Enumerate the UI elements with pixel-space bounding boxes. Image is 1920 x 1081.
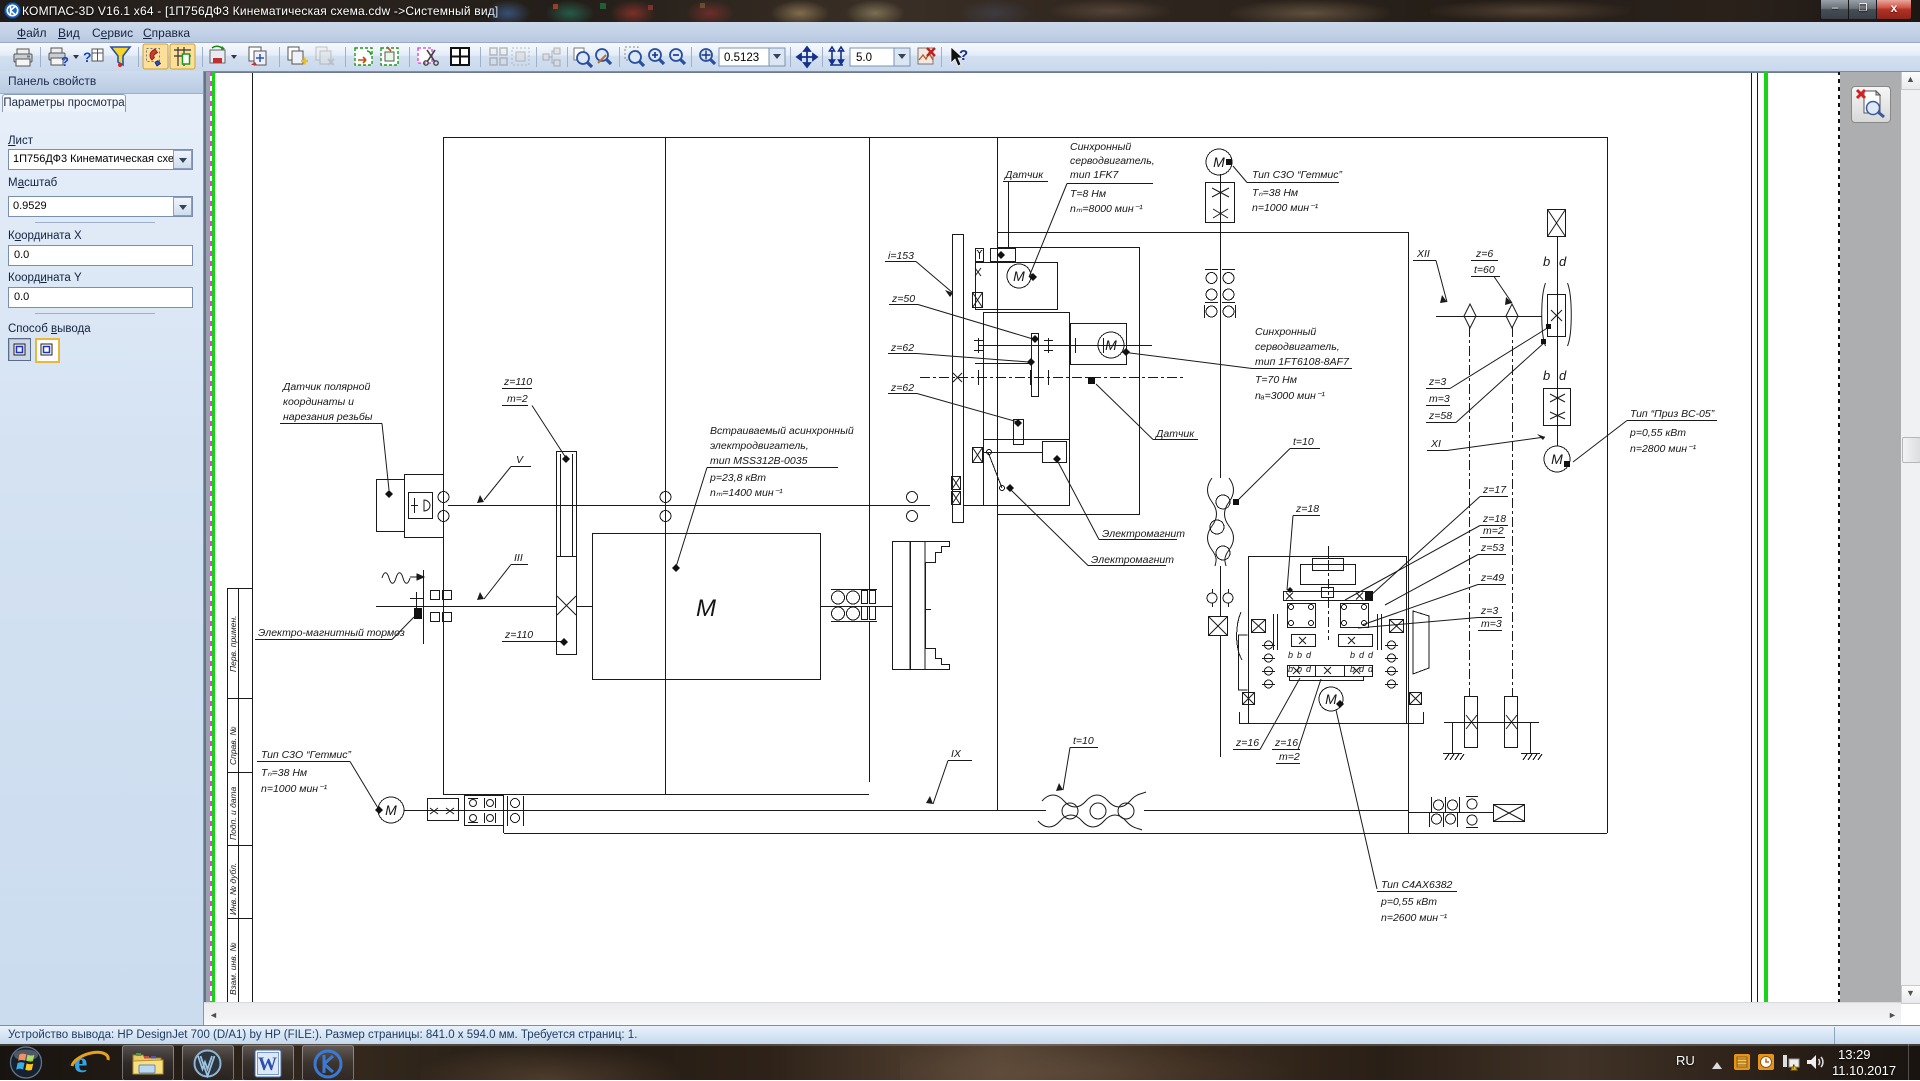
- svg-text:e: e: [74, 1046, 87, 1079]
- svg-text:Tₙ=38 Нм: Tₙ=38 Нм: [1252, 187, 1298, 199]
- svg-text:d: d: [1559, 254, 1567, 269]
- svg-text:M: M: [1213, 154, 1225, 170]
- svg-text:z=18: z=18: [1482, 513, 1506, 525]
- svg-text:T=8 Нм: T=8 Нм: [1070, 188, 1106, 200]
- svg-text:nₘ=1400 мин⁻¹: nₘ=1400 мин⁻¹: [710, 487, 783, 499]
- svg-text:z=3: z=3: [1480, 605, 1498, 617]
- svg-text:Взам. инв. №: Взам. инв. №: [228, 942, 238, 995]
- svg-text:Тип С3О “Гетмис”: Тип С3О “Гетмис”: [1252, 169, 1342, 181]
- svg-text:IX: IX: [951, 748, 962, 760]
- svg-text:III: III: [514, 552, 523, 564]
- svg-text:XII: XII: [1416, 248, 1430, 260]
- svg-text:5.0: 5.0: [856, 52, 872, 64]
- svg-text:z=16: z=16: [1274, 737, 1298, 749]
- svg-text:M: M: [1013, 268, 1025, 284]
- svg-text:z=58: z=58: [1428, 410, 1452, 422]
- svg-text:?: ?: [959, 47, 968, 64]
- svg-text:M: M: [696, 595, 716, 622]
- svg-text:Электромагнит: Электромагнит: [1091, 554, 1174, 566]
- svg-text:Tₙ=38 Нм: Tₙ=38 Нм: [261, 767, 307, 779]
- svg-text:z=62: z=62: [890, 382, 914, 394]
- svg-text:b: b: [1350, 650, 1355, 660]
- svg-text:z=18: z=18: [1295, 503, 1319, 515]
- svg-text:m=2: m=2: [1483, 525, 1504, 537]
- svg-text:Датчик: Датчик: [1155, 428, 1195, 440]
- svg-text:z=3: z=3: [1428, 376, 1446, 388]
- svg-text:d: d: [1368, 664, 1374, 674]
- svg-text:m=3: m=3: [1481, 618, 1502, 630]
- svg-text:n=2800 мин⁻¹: n=2800 мин⁻¹: [1630, 443, 1697, 455]
- svg-text:Датчик полярной: Датчик полярной: [282, 381, 371, 393]
- svg-text:Перв. примен.: Перв. примен.: [228, 616, 238, 673]
- svg-text:V: V: [516, 454, 524, 466]
- svg-text:серводвигатель,: серводвигатель,: [1070, 155, 1155, 167]
- svg-text:Синхронный: Синхронный: [1255, 326, 1316, 338]
- svg-text:Тип “Приз ВС-05”: Тип “Приз ВС-05”: [1630, 408, 1715, 420]
- svg-text:нарезания резьбы: нарезания резьбы: [283, 411, 373, 423]
- svg-text:b: b: [1350, 664, 1355, 674]
- svg-text:Синхронный: Синхронный: [1070, 141, 1131, 153]
- svg-text:m=3: m=3: [1429, 393, 1450, 405]
- svg-text:b: b: [1297, 664, 1302, 674]
- svg-text:M: M: [385, 802, 397, 818]
- svg-text:b: b: [1543, 254, 1550, 269]
- svg-text:p=0,55 кВт: p=0,55 кВт: [1380, 896, 1437, 908]
- svg-text:Электромагнит: Электромагнит: [1102, 528, 1185, 540]
- svg-text:электродвигатель,: электродвигатель,: [710, 440, 809, 452]
- svg-text:M: M: [1325, 691, 1337, 707]
- svg-text:Встраиваемый асинхронный: Встраиваемый асинхронный: [710, 425, 854, 437]
- svg-text:n=1000 мин⁻¹: n=1000 мин⁻¹: [261, 783, 328, 795]
- svg-text:z=17: z=17: [1482, 484, 1507, 496]
- svg-text:z=110: z=110: [503, 376, 532, 388]
- svg-text:t=10: t=10: [1073, 735, 1094, 747]
- svg-text:d: d: [1359, 650, 1365, 660]
- svg-text:b: b: [1297, 650, 1302, 660]
- svg-text:t=10: t=10: [1293, 436, 1314, 448]
- svg-text:n=2600 мин⁻¹: n=2600 мин⁻¹: [1381, 912, 1448, 924]
- svg-text:d: d: [1306, 650, 1312, 660]
- svg-text:M: M: [1551, 451, 1563, 467]
- svg-text:b: b: [1543, 368, 1550, 383]
- svg-text:z=53: z=53: [1480, 542, 1504, 554]
- svg-text:z=62: z=62: [890, 342, 914, 354]
- svg-text:d: d: [1559, 368, 1567, 383]
- svg-text:d: d: [1368, 650, 1374, 660]
- svg-text:n=1000 мин⁻¹: n=1000 мин⁻¹: [1252, 202, 1319, 214]
- svg-text:nₐ=3000 мин⁻¹: nₐ=3000 мин⁻¹: [1255, 390, 1325, 402]
- svg-text:b: b: [1288, 650, 1293, 660]
- svg-text:z=49: z=49: [1480, 572, 1504, 584]
- svg-text:тип 1FK7: тип 1FK7: [1070, 169, 1120, 181]
- svg-text:Электро-магнитный тормоз: Электро-магнитный тормоз: [258, 627, 405, 639]
- svg-text:серводвигатель,: серводвигатель,: [1255, 341, 1340, 353]
- svg-text:b: b: [1288, 664, 1293, 674]
- svg-text:t=60: t=60: [1474, 264, 1495, 276]
- svg-text:?: ?: [83, 49, 92, 65]
- svg-text:z=110: z=110: [504, 629, 533, 641]
- svg-text:Тип С3О “Гетмис”: Тип С3О “Гетмис”: [261, 749, 351, 761]
- svg-text:T=70 Нм: T=70 Нм: [1255, 374, 1297, 386]
- svg-text:тип MSS312B-0035: тип MSS312B-0035: [710, 455, 808, 467]
- svg-text:0.5123: 0.5123: [724, 52, 759, 64]
- svg-text:p=23,8 кВт: p=23,8 кВт: [709, 472, 766, 484]
- svg-text:XI: XI: [1430, 438, 1441, 450]
- svg-text:Тип C4АХ6382: Тип C4АХ6382: [1381, 879, 1453, 891]
- svg-text:nₘ=8000 мин⁻¹: nₘ=8000 мин⁻¹: [1070, 203, 1143, 215]
- svg-text:z=16: z=16: [1235, 737, 1259, 749]
- svg-text:Подп. и дата: Подп. и дата: [228, 787, 238, 840]
- svg-text:Датчик: Датчик: [1004, 169, 1044, 181]
- svg-text:?: ?: [61, 54, 69, 69]
- svg-text:z=6: z=6: [1475, 248, 1493, 260]
- svg-text:Инв. № дубл.: Инв. № дубл.: [228, 863, 238, 915]
- svg-text:z=50: z=50: [891, 293, 915, 305]
- svg-text:m=2: m=2: [1279, 751, 1300, 763]
- svg-text:i=153: i=153: [888, 250, 914, 262]
- svg-text:Справ. №: Справ. №: [228, 726, 238, 765]
- svg-text:p=0,55 кВт: p=0,55 кВт: [1629, 427, 1686, 439]
- svg-text:M: M: [1105, 337, 1117, 353]
- svg-text:тип 1FT6108-8АF7: тип 1FT6108-8АF7: [1255, 356, 1350, 368]
- svg-text:m=2: m=2: [507, 393, 528, 405]
- svg-text:координаты и: координаты и: [283, 396, 354, 408]
- svg-text:W: W: [258, 1054, 277, 1075]
